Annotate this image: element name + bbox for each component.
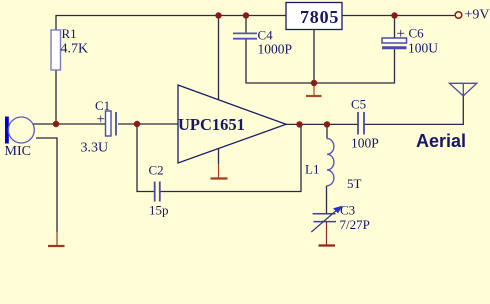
svg-text:15p: 15p: [149, 203, 169, 218]
capacitor C1: [81, 98, 117, 156]
wire C4 bottom lead + lower rail to C6 bottom: [246, 39, 395, 83]
ground (UPC1651): [211, 164, 228, 179]
wire UPC1651 ground pin upper: [218, 148, 220, 164]
svg-text:C4: C4: [258, 28, 274, 43]
wire MIC to C1: [33, 123, 106, 125]
svg-text:1000P: 1000P: [258, 42, 293, 57]
svg-text:+: +: [397, 26, 405, 42]
capacitor C4: [233, 28, 292, 57]
node junction (rail / UPC power): [215, 12, 221, 18]
ground (C3): [319, 222, 336, 246]
wire R1 bottom to input node: [55, 70, 57, 124]
node junction (output / feedback): [296, 121, 302, 127]
svg-text:5T: 5T: [347, 176, 362, 191]
svg-text:7805: 7805: [300, 7, 339, 27]
node junction (rail / C6): [391, 12, 397, 18]
wire L1 bottom to C3: [326, 186, 328, 214]
variable capacitor C3: [311, 203, 370, 233]
svg-text:+9V: +9V: [465, 8, 490, 23]
node junction (output / L1): [324, 121, 330, 127]
inductor L1: [305, 139, 362, 191]
node junction (rail / C4): [243, 12, 249, 18]
wire UPC1651 output to C5: [286, 123, 358, 125]
wire top rail left (R1 top to 7805 left): [56, 16, 286, 31]
node junction (MIC / R1 / C1): [53, 121, 59, 127]
svg-text:100U: 100U: [408, 41, 438, 56]
node junction (7805 gnd / C4-C6 rail): [311, 80, 317, 86]
capacitor C2: [149, 163, 169, 218]
power terminal +9V: [455, 8, 489, 23]
svg-text:3.3U: 3.3U: [81, 141, 109, 156]
svg-text:C2: C2: [149, 163, 164, 178]
svg-text:100P: 100P: [351, 136, 379, 151]
svg-text:7/27P: 7/27P: [340, 217, 370, 232]
wire C5 to antenna: [364, 96, 463, 125]
ground (7805): [306, 83, 322, 96]
capacitor C6: [382, 26, 438, 56]
antenna Aerial: [416, 83, 477, 151]
regulator 7805: [286, 3, 342, 30]
svg-text:R1: R1: [62, 26, 77, 41]
svg-text:Aerial: Aerial: [416, 131, 466, 151]
ground (MIC, bottom left): [48, 232, 65, 246]
wire C4 top lead: [245, 16, 247, 34]
wire C1 to UPC1651 input: [118, 123, 178, 125]
svg-text:L1: L1: [305, 162, 319, 177]
wire UPC1651 power pin: [218, 16, 220, 100]
wire C2 to output vertical: [161, 124, 302, 191]
svg-text:UPC1651: UPC1651: [178, 115, 245, 134]
svg-text:+: +: [97, 112, 105, 128]
wire MIC lower lead to ground: [36, 138, 57, 232]
wire feedback left vertical + to C2: [137, 124, 154, 192]
svg-text:C6: C6: [409, 26, 425, 41]
wire C6 top lead: [394, 16, 396, 39]
svg-text:4.7K: 4.7K: [61, 42, 89, 57]
wire 7805 ground pin: [313, 30, 315, 84]
capacitor C5: [351, 97, 379, 151]
op-amp U1 UPC1651: [178, 85, 286, 163]
node junction (C1 / input / C2): [134, 121, 140, 127]
microphone MIC: [5, 117, 35, 160]
wire top rail right (7805 right to +9V): [342, 15, 455, 17]
svg-text:C3: C3: [340, 203, 355, 218]
resistor R1: [51, 26, 88, 70]
svg-text:MIC: MIC: [5, 144, 31, 159]
svg-text:C5: C5: [351, 97, 366, 112]
wire L1 top lead: [326, 124, 328, 138]
